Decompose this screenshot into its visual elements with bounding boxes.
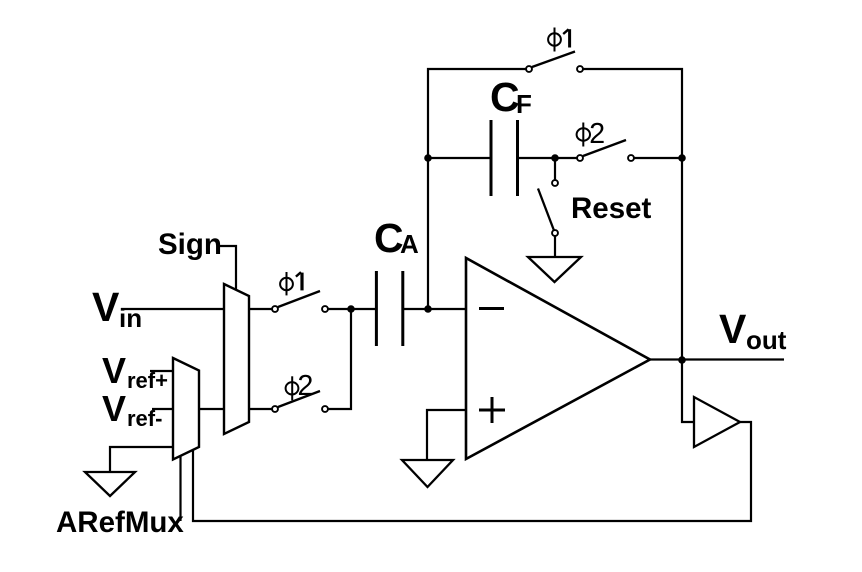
svg-text:ref+: ref+: [127, 368, 168, 393]
svg-text:V: V: [92, 284, 120, 330]
wire op-amp non-inverting input to ground: [427, 410, 466, 460]
wire CA to op-amp inverting input: [402, 308, 466, 310]
svg-text:out: out: [746, 325, 787, 355]
ground reset: [528, 257, 581, 282]
wire output down to buffer: [682, 360, 694, 422]
ground ARefMux: [85, 472, 135, 496]
label phi1A: [280, 272, 302, 295]
svg-text:ref-: ref-: [127, 406, 162, 431]
svg-text:2: 2: [298, 370, 314, 402]
mux U2 ARefMux trapezoid: [173, 358, 199, 460]
svg-text:F: F: [516, 89, 532, 119]
op-amp minus sign: [479, 307, 504, 310]
switch reset lever: [538, 189, 554, 231]
ground op-amp plus: [402, 460, 453, 487]
svg-text:ARefMux: ARefMux: [56, 506, 184, 539]
op-amp U3: [466, 258, 650, 459]
switch phi1A lever: [278, 291, 320, 307]
wire Vref+ input: [150, 370, 173, 372]
label phi2A: [286, 370, 314, 402]
wire Sign mux out to phi1A switch: [249, 308, 275, 310]
wire phi2A out up to CA node: [325, 309, 351, 409]
svg-text:Sign: Sign: [158, 228, 222, 261]
wire Sign label pointer: [220, 246, 236, 290]
mux U1 Sign trapezoid: [224, 284, 249, 434]
label phi2 mid: [577, 118, 606, 150]
svg-text:2: 2: [589, 118, 605, 150]
switch contact circles: [272, 66, 634, 412]
junction dots: [347, 154, 686, 364]
wire phi2 switch to right vertical: [631, 157, 682, 159]
svg-text:in: in: [119, 303, 142, 333]
wire buffer output feedback: [193, 422, 751, 521]
wire Vin to Sign mux: [121, 308, 225, 310]
switch phi2 mid lever: [583, 140, 626, 156]
svg-text:Reset: Reset: [571, 192, 652, 225]
svg-text:A: A: [400, 229, 419, 259]
wire ARefMux label pointer: [179, 456, 181, 521]
buffer U4: [694, 397, 740, 447]
svg-text:V: V: [102, 388, 126, 429]
wire CF to phi2 switch: [517, 157, 580, 159]
wire top feedback right segment and right vertical: [580, 69, 682, 360]
wire CF row left: [428, 157, 492, 159]
wire reset stub top: [554, 158, 556, 183]
wire reset to ground: [554, 233, 556, 257]
switch phi2A lever: [278, 391, 320, 407]
capacitor CF plates: [491, 120, 518, 196]
switch phi1 top lever: [532, 52, 575, 68]
wire ARefMux out to Sign mux (phi2 row): [199, 408, 275, 410]
label phi1 top: [548, 28, 570, 52]
wire op-amp output: [650, 358, 784, 360]
wire phi1A switch to CA node: [325, 308, 377, 310]
op-amp plus sign: [479, 397, 505, 423]
svg-text:V: V: [719, 306, 747, 352]
capacitor CA plates: [376, 271, 402, 346]
wire Vref- input: [152, 408, 173, 410]
wire ARefMux ground: [110, 447, 173, 472]
svg-text:V: V: [102, 350, 126, 391]
wire left feedback vertical: [428, 69, 529, 309]
